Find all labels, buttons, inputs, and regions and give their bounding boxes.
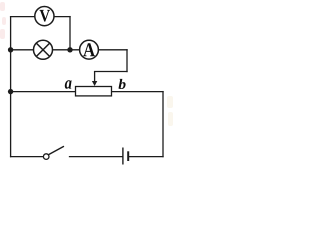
wire bottom left to switch: [11, 156, 44, 158]
watermark left faint pink: [0, 2, 6, 39]
rheostat slider arrow: [92, 72, 97, 87]
node junction left-lamp: [8, 47, 13, 52]
wire bottom battery to right: [129, 156, 163, 158]
node junction left-rheostat: [8, 89, 13, 94]
wire voltmeter branch right vertical: [69, 17, 71, 50]
label b: [118, 79, 125, 89]
wire rheostat left lead: [11, 91, 76, 93]
battery cell: [123, 148, 128, 165]
ammeter A: [80, 40, 99, 59]
wire connector to slider: [95, 71, 127, 73]
watermark right faint yellow: [167, 96, 173, 126]
wire left vertical: [10, 17, 12, 157]
wire rheostat right lead: [112, 91, 164, 93]
label a: [65, 80, 72, 88]
voltmeter V: [35, 7, 54, 26]
wire ammeter branch drop: [126, 50, 128, 72]
wire top voltmeter branch: [11, 16, 70, 18]
wire right vertical: [162, 92, 164, 157]
lamp L: [34, 40, 53, 59]
switch S: [43, 147, 63, 160]
wire main row lamp-ammeter: [11, 49, 127, 51]
node junction lamp-ammeter: [67, 47, 72, 52]
wire bottom switch to battery: [70, 156, 123, 158]
rheostat R body: [76, 87, 112, 96]
